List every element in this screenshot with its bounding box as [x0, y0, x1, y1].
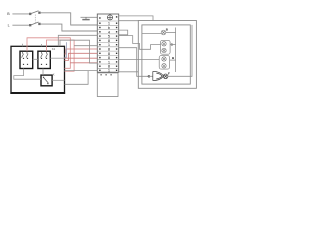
wire terminal bottom to frame: [119, 71, 139, 73]
horn symbol: [153, 71, 168, 80]
row edge dots: [99, 16, 117, 71]
gray wire box right to terminal row13: [65, 70, 98, 72]
terminal block XT: [97, 14, 118, 72]
gray wire box top to terminal row5: [58, 35, 97, 46]
red wire relay2 out to terminal row10: [65, 57, 98, 59]
svg-text:1: 1: [108, 68, 110, 72]
wire K2 to box right edge: [50, 57, 64, 59]
red wire branch to terminal row12: [70, 62, 97, 64]
svg-text:L: L: [8, 23, 10, 27]
blue-gray wire around box corner: [65, 42, 67, 57]
wire terminal row10 to lamp unit2: [119, 59, 160, 61]
big box internal wires: [14, 44, 65, 81]
dual lamp unit2: [159, 56, 169, 70]
wire switch1 input: [12, 13, 30, 15]
switch SB2 blade: [29, 22, 40, 26]
red coil wire B: [47, 40, 75, 71]
row number glyphs: [108, 22, 110, 73]
red wire to terminal row9: [65, 53, 98, 60]
relay unit big box: [11, 46, 65, 93]
wire terminal row6 staircase to lamp unit1: [119, 36, 161, 50]
row separators: [97, 21, 118, 68]
inner frame right unit: [142, 25, 190, 84]
wire switch1 output to terminal row3: [41, 13, 98, 25]
wire switch2 input: [12, 24, 30, 26]
wire terminal row1 to right frame top: [119, 16, 153, 21]
wire K1 to K2: [33, 58, 38, 60]
lamp HL1: [161, 30, 166, 35]
relay K1: [20, 51, 33, 68]
ground symbol: [82, 17, 89, 19]
dual lamp unit1: [161, 40, 171, 54]
red wire to terminal row8: [65, 49, 98, 54]
switch gang dashed link: [34, 15, 36, 24]
svg-text:K: K: [53, 72, 55, 76]
red coil wire A: [27, 38, 70, 69]
switch SB1 blade: [29, 11, 40, 15]
svg-text:K2: K2: [52, 47, 56, 51]
terminal screw symbol: [107, 15, 112, 20]
wire K1 bottom loop to K3: [14, 69, 41, 80]
dual lamp unit1 output wire: [170, 44, 176, 46]
relay K3: [41, 75, 52, 86]
gray wire box pin via jog to terminal row11: [60, 40, 97, 63]
wire terminal row2 to frame corner: [119, 20, 139, 22]
gray wire to terminal row7: [74, 45, 97, 47]
connector body lower rectangle: [97, 73, 118, 97]
vertical bus inside frame: [175, 28, 177, 73]
dual lamp unit2 output wire: [170, 59, 176, 61]
connector body pin marks: [101, 74, 112, 75]
wire switch2 output to terminal row4: [41, 24, 98, 31]
svg-text:F: F: [168, 71, 170, 75]
wire inner frame to lamp1: [142, 32, 161, 34]
relay K2: [38, 51, 50, 68]
wire terminal row8 to horn: [119, 48, 153, 77]
horn output wire: [168, 25, 192, 76]
gray wire box right lower jog: [65, 71, 89, 85]
wire K3 output: [52, 79, 64, 81]
wire ground to terminal row1: [81, 16, 98, 18]
big box thick bottom edge: [10, 92, 65, 94]
lamp HL1 output wire: [166, 32, 176, 34]
relay top pin stubs: [22, 44, 24, 47]
wire K2 bottom to K3 top: [42, 69, 44, 76]
jumper terminal rows: [119, 30, 128, 35]
outer frame right unit: [138, 21, 196, 89]
